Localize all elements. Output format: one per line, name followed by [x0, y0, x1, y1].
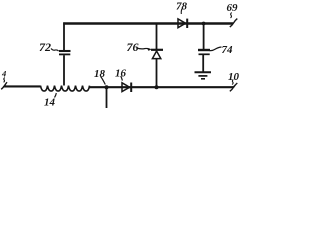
terminal hatch top-right (lead 69): [230, 19, 238, 27]
leader tick for label 18: [101, 77, 106, 85]
node 18 junction dot: [105, 85, 109, 89]
leader squiggle for label 74: [210, 47, 222, 51]
svg-text:76: 76: [127, 40, 139, 54]
arrowhead for label 4 leader: [3, 84, 6, 88]
diode D76 cathode bar: [151, 49, 163, 51]
leader tick for label 16: [121, 76, 123, 81]
wire left vertical branch (top rail corner down to capacitor 72): [63, 22, 65, 50]
wire stub down from node 18: [106, 87, 108, 108]
leader squiggle for label 4: [4, 78, 5, 83]
wire bottom rail mid segment: [90, 86, 234, 88]
svg-text:72: 72: [39, 40, 51, 54]
svg-text:16: 16: [115, 68, 127, 80]
leader tick for label 78: [181, 9, 182, 15]
svg-text:78: 78: [176, 1, 188, 13]
capacitor C72 top plate: [59, 50, 71, 52]
wire capacitor 74 down to ground: [202, 55, 204, 72]
wire top rail: [63, 22, 233, 25]
wire diode 76 anode down to bottom rail: [156, 59, 158, 88]
leader squiggle for label 69: [230, 13, 231, 18]
terminal hatch bottom-right (lead 10): [230, 83, 238, 91]
capacitor C74 top plate: [198, 49, 210, 51]
ground symbol: [195, 71, 212, 73]
diode D78 cathode bar: [186, 19, 188, 28]
arrowhead for label 10 leader: [232, 85, 235, 88]
leader squiggle for label 10: [232, 80, 233, 85]
svg-text:10: 10: [228, 71, 240, 83]
diode D16 cathode bar: [130, 83, 132, 93]
node at bottom of diode 76 branch junction dot: [155, 85, 159, 89]
leader line with arrowhead for label 76: [137, 48, 151, 50]
wire capacitor 72 down to inductor tap: [63, 55, 65, 85]
inductor L14: [41, 86, 90, 92]
capacitor C74 bottom plate: [199, 53, 210, 55]
wire vertical branch from top rail to diode 76: [156, 23, 158, 49]
svg-text:69: 69: [227, 2, 239, 14]
wire vertical branch from top rail to capacitor 74: [203, 24, 205, 50]
svg-text:74: 74: [222, 44, 234, 56]
svg-text:14: 14: [44, 97, 56, 109]
diode D16 triangle: [122, 83, 130, 92]
leader squiggle for label 72: [51, 49, 59, 52]
svg-text:4: 4: [1, 69, 6, 79]
capacitor C72 bottom plate: [59, 53, 70, 55]
leader tick for label 14: [55, 93, 57, 98]
diode D76 triangle (pointing up): [152, 51, 160, 59]
wire bottom rail left segment: [4, 85, 41, 87]
node junction dot at cap 74 branch: [202, 22, 206, 26]
diode D78 triangle: [178, 19, 186, 28]
terminal hatch bottom-left (lead 4): [1, 82, 7, 89]
svg-text:18: 18: [94, 68, 106, 80]
